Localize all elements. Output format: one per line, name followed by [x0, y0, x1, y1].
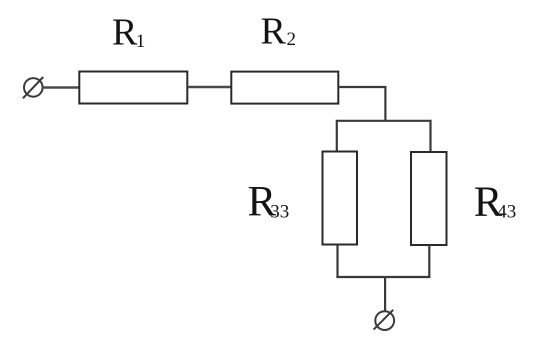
wire: R33 to bottom rail [336, 245, 338, 279]
terminal output (circle with slash) [374, 310, 395, 330]
wire: top rail of parallel section [337, 120, 431, 122]
wire: R1 to R2 [188, 86, 231, 88]
wire: top rail to R43 [429, 120, 431, 153]
terminal input (circle with slash) [23, 77, 43, 98]
resistor R33 [323, 152, 358, 245]
wire: input terminal to R1 [43, 86, 80, 88]
svg-text:2: 2 [287, 29, 297, 50]
wire: bottom rail of parallel section [336, 276, 430, 278]
wire: bottom rail to output terminal [384, 277, 386, 311]
resistor R2 [231, 72, 338, 104]
wire: R43 to bottom rail [428, 245, 430, 278]
wire: top rail to R33 [336, 120, 338, 153]
resistor R1 [79, 72, 187, 104]
svg-text:43: 43 [497, 201, 516, 222]
svg-text:R: R [261, 10, 287, 52]
svg-text:1: 1 [136, 31, 146, 52]
svg-text:R: R [112, 11, 138, 53]
wire: R2 to corner node [339, 87, 385, 121]
resistor R43 [411, 152, 447, 245]
svg-text:33: 33 [270, 201, 289, 222]
